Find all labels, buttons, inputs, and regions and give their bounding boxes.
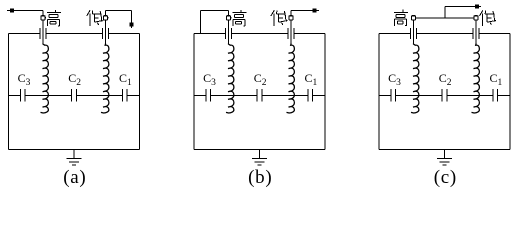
probe wire from low terminal panel (a)	[106, 11, 132, 29]
wire lead from high terminal down through cap gap panel (c)	[413, 20, 415, 44]
wire top edge segments panel (c)	[379, 33, 510, 35]
ground panel (b)	[252, 150, 267, 166]
wire top edge segments panel (b)	[194, 33, 325, 35]
label 低 panel (a)	[87, 10, 103, 26]
ground panel (a)	[67, 150, 82, 166]
svg-text:C1: C1	[119, 71, 132, 88]
probe tip square panel (b)	[313, 9, 317, 13]
terminal circle low panel (c)	[474, 16, 478, 20]
svg-text:(b): (b)	[248, 167, 272, 188]
capacitor C3 panel (a)	[20, 89, 25, 102]
svg-text:C3: C3	[203, 71, 216, 88]
capacitor C3 panel (c)	[391, 89, 396, 102]
capacitor C3 panel (b)	[206, 89, 211, 102]
inductor winding right panel (b)	[287, 44, 295, 114]
wire linking high and low terminals panel (c)	[416, 17, 474, 19]
label 低 panel (c)	[480, 10, 496, 26]
capacitor top-left (series cap under high terminal) panel (c)	[411, 28, 417, 39]
probe wire to high terminal panel (a)	[7, 11, 43, 16]
label 高 panel (b)	[232, 10, 246, 26]
probe tip square panel (c)	[475, 5, 479, 9]
svg-text:C1: C1	[490, 71, 503, 88]
wire lead from high terminal down through cap gap panel (b)	[228, 20, 230, 44]
inductor winding right panel (c)	[472, 44, 480, 114]
probe tip square left panel (a)	[10, 9, 14, 13]
svg-text:C1: C1	[305, 71, 318, 88]
svg-text:C3: C3	[18, 71, 31, 88]
inductor winding left panel (b)	[226, 44, 234, 114]
terminal circle high panel (a)	[41, 16, 45, 20]
inductor winding left panel (c)	[411, 44, 419, 114]
probe wire from low terminal panel (b)	[291, 11, 319, 16]
label 低 panel (b)	[271, 10, 287, 26]
wire lead from low terminal down through cap gap panel (c)	[475, 20, 477, 44]
jumper wire high terminal to box top panel (b)	[201, 11, 229, 34]
terminal circle high panel (c)	[411, 16, 415, 20]
capacitor C1 panel (c)	[493, 89, 498, 102]
wire middle bus segments panel (c)	[379, 95, 510, 97]
capacitor C2 panel (b)	[257, 89, 262, 102]
wire lead from high terminal down through cap gap panel (a)	[42, 20, 44, 44]
capacitor C1 panel (a)	[122, 89, 127, 102]
enclosure box panel (a)	[9, 34, 140, 150]
probe tip square right panel (a)	[129, 22, 133, 26]
enclosure box panel (c)	[379, 34, 510, 150]
enclosure box panel (b)	[194, 34, 325, 150]
wire lead from low terminal down through cap gap panel (a)	[105, 20, 107, 44]
capacitor top-left (series cap under high terminal) panel (b)	[226, 28, 232, 39]
svg-text:C2: C2	[68, 71, 81, 88]
svg-text:C2: C2	[254, 71, 267, 88]
terminal circle high panel (b)	[226, 16, 230, 20]
inductor winding left panel (a)	[41, 44, 49, 114]
svg-text:C3: C3	[388, 71, 401, 88]
svg-text:(a): (a)	[63, 167, 86, 188]
capacitor top-left (series cap under high terminal) panel (a)	[40, 28, 46, 39]
capacitor C1 panel (b)	[308, 89, 313, 102]
ground panel (c)	[437, 150, 452, 166]
inductor winding right panel (a)	[101, 44, 109, 114]
capacitor top-right (series cap under low terminal) panel (a)	[103, 28, 109, 39]
label 高 panel (a)	[47, 10, 61, 26]
capacitor top-right (series cap under low terminal) panel (b)	[288, 28, 294, 39]
wire middle bus segments panel (a)	[9, 95, 140, 97]
capacitor top-right (series cap under low terminal) panel (c)	[473, 28, 479, 39]
label 高 panel (c)	[394, 10, 408, 26]
wire lead from low terminal down through cap gap panel (b)	[290, 20, 292, 44]
terminal circle low panel (b)	[289, 16, 293, 20]
wire top edge segments panel (a)	[9, 33, 140, 35]
svg-text:(c): (c)	[434, 167, 457, 188]
capacitor C2 panel (c)	[442, 89, 447, 102]
svg-text:C2: C2	[439, 71, 452, 88]
terminal circle low panel (a)	[103, 16, 107, 20]
probe branch wire panel (c)	[445, 7, 481, 18]
capacitor C2 panel (a)	[71, 89, 76, 102]
wire middle bus segments panel (b)	[194, 95, 325, 97]
